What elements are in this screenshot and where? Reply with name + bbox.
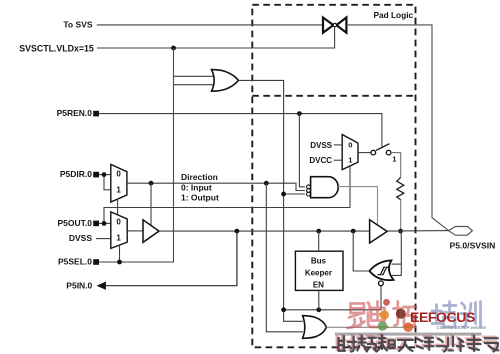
wire OR U1 output to AND and bottom OR [238, 80, 305, 194]
arrow P5IN.0 [97, 282, 106, 290]
switch S1 resistor enable [371, 150, 376, 155]
junction Direction to output buffer enable [149, 181, 154, 186]
or-gate U10 bottom [303, 316, 327, 339]
wire P5DIR.0 branch to input 1 [104, 175, 111, 190]
wire DVSS stub [334, 144, 342, 146]
junction P5REN branch [297, 111, 302, 116]
svg-text:1: 1 [116, 233, 121, 242]
watermark big char tuo [394, 302, 417, 326]
pad logic dashed box [252, 5, 415, 348]
svg-text:0: 0 [116, 217, 121, 226]
wire SVSCTL.VLDx=15 to switch stem [97, 28, 335, 49]
watermark gray bar [335, 333, 482, 336]
watermark logo dot orange a [380, 310, 390, 320]
and-gate U6 [311, 177, 339, 198]
junction EN net left [281, 307, 286, 312]
svg-text:Direction: Direction [181, 172, 218, 182]
watermark big char pei [432, 302, 456, 328]
hysteresis glyph U9 [378, 267, 390, 274]
bubble U6 input b [307, 189, 311, 193]
mux U5 pull selector DVSS/DVCC [342, 135, 358, 170]
switch SVS bowtie T1 [323, 18, 346, 33]
bubble U6 input c [307, 192, 311, 196]
watermark big char xun [461, 302, 481, 328]
schmitt keeper gate U9 [369, 260, 393, 280]
svg-text:Bus: Bus [311, 256, 327, 265]
svg-text:DVSS: DVSS [69, 233, 92, 243]
wire bus keeper EN net (horizontal) [284, 286, 381, 310]
or-gate U1 [212, 70, 239, 92]
wire U6 output to driver enable [338, 187, 377, 226]
wire DVSS into mux [96, 238, 111, 240]
svg-text:0: Input: 0: Input [181, 183, 212, 193]
bubble U9 enable [379, 281, 384, 286]
junction Direction to bottom OR [264, 181, 269, 186]
wire P5OUT.0 up and right to pull mux select [104, 166, 350, 223]
buffer U3 [143, 220, 159, 243]
wire U4 output to buffer [127, 230, 143, 232]
pad P5.0/SVSIN [449, 227, 473, 236]
svg-text:1: Output: 1: Output [181, 193, 219, 203]
bubble U6 input a [307, 185, 311, 189]
resistor R1 pullup/pulldown [397, 177, 404, 199]
wire U10 output [326, 326, 415, 328]
mux U4 output select [111, 212, 127, 249]
wire DVCC stub [334, 159, 342, 161]
svg-text:P5OUT.0: P5OUT.0 [58, 218, 93, 228]
svg-text:EN: EN [313, 281, 324, 290]
port square P5REN.0 [93, 111, 99, 117]
svg-text:DVCC: DVCC [309, 156, 332, 165]
junction keeper output tap [351, 229, 356, 234]
wire U5 output to switch [358, 152, 371, 154]
wire resistor to pad line [400, 200, 402, 231]
svg-text:Pad Logic: Pad Logic [373, 10, 413, 20]
buffer U7 pad driver [370, 220, 388, 243]
wire OR U1 input stubs [174, 75, 216, 77]
watermark logo dot maroon [396, 309, 406, 319]
wire keeper gate output to pad line [353, 231, 369, 271]
watermark big char yi [348, 304, 365, 329]
junction EN net at bus keeper [316, 307, 321, 312]
wire P5DIR.0 into mux [99, 174, 111, 176]
wire bus keeper top pin [318, 231, 320, 251]
wire bus keeper bottom pin [318, 290, 320, 309]
junction P5OUT.0 [102, 221, 107, 226]
svg-text:P5SEL.0: P5SEL.0 [58, 256, 92, 266]
watermark logo dot orange b [403, 322, 413, 332]
svg-text:Click for EETOP website: Click for EETOP website [437, 325, 487, 330]
wire long vertical from SVSCTL junction down to P5SEL line [97, 48, 174, 262]
svg-text:Keeper: Keeper [305, 268, 332, 277]
svg-text:1: 1 [116, 186, 121, 195]
wire keeper gate inputs from pad line [392, 231, 402, 275]
svg-text:0: 0 [116, 170, 121, 179]
wire U4 select to P5SEL [119, 246, 121, 262]
watermark logo dot red small [383, 299, 390, 306]
wire P5SEL.0 line [97, 261, 174, 263]
junction at AND lower input [281, 192, 286, 197]
port square P5SEL.0 [93, 259, 99, 265]
svg-text:P5IN.0: P5IN.0 [66, 280, 92, 290]
svg-text:P5.0/SVSIN: P5.0/SVSIN [450, 241, 496, 251]
wire P5REN.0 line [99, 114, 382, 147]
pad logic divider dashed [252, 95, 415, 97]
bus keeper box U8 [295, 251, 343, 290]
wire switch to resistor [391, 153, 401, 178]
svg-text:To SVS: To SVS [63, 19, 92, 29]
watermark logo dot green [378, 321, 388, 331]
wire driver output to pad [387, 230, 448, 233]
wire Direction net [127, 183, 305, 190]
wire U2 select link [117, 199, 119, 215]
junction P5SEL.0 [117, 260, 122, 265]
wire P5IN.0 return [105, 231, 237, 286]
wire P5REN branch down to AND input [299, 114, 305, 187]
junction resistor at pad line [398, 229, 403, 234]
mux U2 direction select [111, 164, 127, 202]
svg-text:0: 0 [348, 140, 352, 149]
wire bowtie output to pad [346, 25, 448, 231]
junction bus keeper tap [316, 229, 321, 234]
port square P5OUT.0 [93, 221, 99, 227]
svg-text:P5REN.0: P5REN.0 [57, 108, 93, 118]
watermark big char di [368, 302, 388, 328]
junction P5DIR.0 [102, 172, 107, 177]
svg-text:EEFOCUS: EEFOCUS [410, 309, 475, 325]
wire To SVS [97, 24, 323, 26]
port square P5DIR.0 [93, 172, 99, 178]
junction on SVSCTL line [171, 46, 176, 51]
svg-text:DVSS: DVSS [310, 141, 332, 150]
junction P5IN tap [235, 229, 240, 234]
wire enable drop to buffer U3 [150, 183, 152, 225]
svg-text:P5DIR.0: P5DIR.0 [60, 169, 92, 179]
wire Direction drop to bottom OR input [266, 183, 303, 332]
svg-text:SVSCTL.VLDx=15: SVSCTL.VLDx=15 [19, 43, 94, 53]
wire P5OUT.0 into mux [99, 222, 111, 224]
wire main data line to pad driver [159, 230, 370, 232]
